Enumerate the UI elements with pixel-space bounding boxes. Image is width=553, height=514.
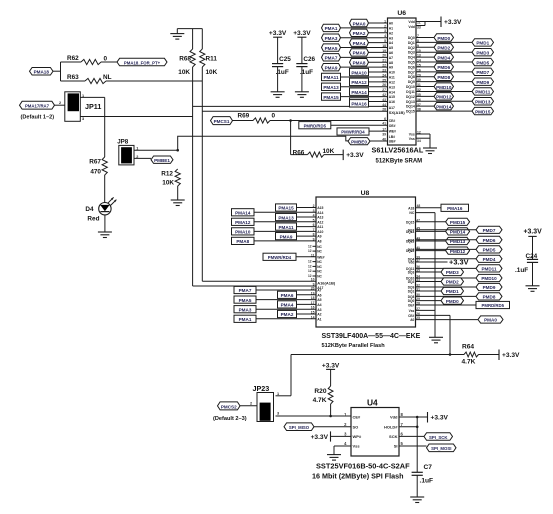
svg-text:A14: A14 (317, 211, 323, 215)
wire Vdd to C7 riser (416, 417, 418, 472)
jumper JP23 (250, 384, 279, 422)
wire PMA15 to U6 (341, 96, 388, 98)
svg-text:+3.3V: +3.3V (311, 434, 329, 441)
svg-text:A10: A10 (317, 230, 323, 234)
svg-text:DQ3: DQ3 (408, 271, 415, 275)
svg-text:PMD0: PMD0 (437, 36, 450, 41)
net tag PMD1 (441, 287, 464, 294)
svg-text:PMA0: PMA0 (353, 21, 366, 26)
svg-text:0: 0 (104, 56, 108, 63)
op IC U4 body (351, 398, 399, 456)
resistor R69 0 (233, 112, 276, 123)
svg-text:DQ15: DQ15 (406, 110, 415, 114)
svg-text:+3.3V: +3.3V (444, 19, 462, 26)
svg-text:37: 37 (416, 259, 420, 263)
wire net R63/NL to pullup column (106, 80, 202, 82)
svg-text:10: 10 (311, 278, 315, 282)
svg-text:DQ0: DQ0 (408, 36, 415, 40)
wire PMA7 to U6 (341, 56, 388, 58)
U6 Vdd pins to +3.3V (408, 20, 441, 29)
svg-text:PMA4: PMA4 (353, 41, 366, 46)
svg-text:PMA5: PMA5 (239, 298, 252, 303)
svg-text:PMA3: PMA3 (325, 36, 338, 41)
svg-text:PMRD/RD5: PMRD/RD5 (304, 123, 327, 128)
wire PMA2 to U6 (369, 32, 388, 34)
wire U8 Vss to ground (long) (416, 213, 436, 338)
svg-text:PMA9: PMA9 (280, 234, 293, 239)
svg-text:+3.3V: +3.3V (449, 258, 469, 267)
svg-text:PMD8: PMD8 (483, 295, 496, 300)
svg-text:PMD14: PMD14 (450, 230, 466, 235)
wire JP11 pin1 to R67 (80, 97, 104, 157)
U8 WE pin (311, 253, 325, 259)
svg-text:PMCS2: PMCS2 (221, 404, 237, 409)
net tag PMD12 (434, 93, 454, 100)
svg-text:A16: A16 (389, 100, 395, 104)
svg-text:C24: C24 (526, 253, 538, 260)
U6 control pin labels (382, 117, 396, 144)
U8 left pin labels A15-A8 (317, 206, 323, 243)
svg-text:PMA12: PMA12 (235, 220, 251, 225)
net tag PMA14 (U8) (232, 209, 255, 216)
wire PMD8 from U6 (416, 76, 434, 78)
svg-text:DQ13: DQ13 (406, 240, 415, 244)
ground below C25 (271, 92, 285, 98)
svg-text:42: 42 (416, 238, 420, 242)
svg-text:HOLD#: HOLD# (384, 425, 398, 430)
svg-text:PMD2: PMD2 (446, 280, 459, 285)
wire PMA4 to U6 (369, 42, 388, 44)
net tag PMD10 (476, 274, 502, 281)
power +3.3V at U6 (441, 17, 462, 28)
ground below C24 (526, 286, 540, 292)
wire ground bar to pullups (177, 28, 202, 30)
wire PMRD/RD5 to U8 (416, 304, 477, 306)
wire PMWR/RD4 to U8 (296, 256, 316, 258)
net tag PMD5 (476, 246, 502, 253)
wire PMD8 from U8 (416, 295, 477, 297)
svg-text:PMA17/RA7: PMA17/RA7 (25, 104, 50, 109)
wire PMD12 from U6 (416, 95, 434, 97)
wire JP23 pin1 riser (276, 355, 292, 396)
net tag PMA16 (U6) (350, 100, 369, 107)
wire U4 Vdd to +3.3V (399, 416, 428, 418)
svg-text:470: 470 (90, 169, 101, 176)
svg-text:PMD5: PMD5 (476, 60, 489, 65)
svg-text:JP23: JP23 (253, 384, 270, 393)
svg-text:Vdd: Vdd (390, 415, 398, 420)
resistor R63 (NL) (61, 74, 112, 84)
net tag PMA7 (U8) (234, 286, 256, 293)
net tag PMA6 (U8) (278, 291, 297, 298)
net tag PMD6 (476, 236, 502, 243)
svg-text:47: 47 (416, 218, 420, 222)
net tag PMA12 (U8) (232, 218, 255, 225)
wire PMA10 to U8 (254, 230, 316, 232)
svg-text:Red: Red (87, 216, 99, 223)
svg-text:PMD3: PMD3 (446, 270, 459, 275)
svg-text:PMD6: PMD6 (483, 238, 496, 243)
svg-text:PMD5: PMD5 (483, 248, 496, 253)
svg-text:PMA13: PMA13 (278, 215, 294, 220)
junction JP8/R12 (176, 149, 179, 152)
svg-text:A2: A2 (317, 313, 321, 317)
svg-text:SO: SO (353, 425, 359, 430)
svg-text:A7: A7 (317, 289, 321, 293)
svg-text:11: 11 (417, 21, 421, 25)
svg-text:10K: 10K (178, 69, 190, 76)
svg-text:SPI_SCK: SPI_SCK (429, 435, 448, 440)
svg-text:A3: A3 (389, 36, 393, 40)
net tag PMA8 (U8) (232, 237, 255, 244)
wire PMD10 from U8 (416, 277, 477, 279)
svg-text:34: 34 (417, 139, 421, 143)
wire PMD4 from U6 (416, 56, 434, 58)
net tag PMA11 (U8) (276, 223, 297, 230)
svg-text:PMD1: PMD1 (476, 41, 489, 46)
svg-text:.1uF: .1uF (276, 69, 289, 76)
wire PMA11 to U8 (297, 226, 317, 228)
net tag PMWR/RD4 (U8) (263, 253, 296, 260)
svg-text:PMD9: PMD9 (483, 285, 496, 290)
svg-text:A0: A0 (410, 318, 414, 322)
wire PMD3 from U6 (416, 51, 472, 53)
svg-text:PMD11: PMD11 (481, 267, 497, 272)
svg-text:PMA2: PMA2 (281, 312, 294, 317)
svg-text:JP8: JP8 (117, 139, 129, 146)
wire PMD1 from U8 (416, 290, 442, 292)
net tag PMA6 (350, 49, 369, 56)
wire PMD1 from U6 (416, 41, 472, 43)
junction HOLD riser (416, 426, 419, 429)
svg-text:U8: U8 (361, 190, 370, 197)
wire JP11 pin3 to A17 column (80, 116, 192, 118)
wire PMD15 from U6 (416, 110, 472, 112)
wire SPI_MISO to U4 SO (314, 426, 351, 428)
svg-text:PMD9: PMD9 (476, 80, 489, 85)
net tag PMA14 (350, 88, 369, 95)
svg-text:DQ15: DQ15 (406, 220, 415, 224)
svg-text:A16(A1B): A16(A1B) (317, 280, 336, 285)
wire PMA0 to U6 (369, 22, 388, 24)
svg-text:512KByte SRAM: 512KByte SRAM (376, 159, 423, 165)
svg-text:PMA8: PMA8 (353, 61, 366, 66)
svg-text:A8: A8 (389, 61, 393, 65)
net tag PMA13 (U8) (276, 213, 297, 220)
svg-text:1: 1 (277, 392, 279, 396)
wire PMD11 from U8 (416, 267, 477, 269)
wire PMA5 to U6 (341, 47, 388, 49)
svg-text:39: 39 (382, 133, 386, 137)
net tag PMD13 (472, 98, 494, 105)
wire PMD9 from U8 (416, 286, 477, 288)
wire JP8 pin2 to PMBE1 (134, 157, 151, 159)
U4 left pin labels (344, 412, 362, 449)
wire PMD6 from U8 (416, 239, 477, 241)
net tag PMD11 (472, 88, 494, 95)
resistor R20 4.7K (313, 369, 333, 416)
wire PMD5 from U8 (416, 248, 477, 250)
svg-text:PMA10: PMA10 (351, 70, 367, 75)
svg-text:DQ2: DQ2 (408, 46, 415, 50)
svg-text:PMA9: PMA9 (325, 65, 338, 70)
svg-text:A3: A3 (317, 308, 321, 312)
wire PMA12 to U6 (369, 81, 388, 83)
svg-text:2: 2 (250, 402, 252, 406)
net tag PMA15 (322, 93, 341, 100)
svg-text:PMA14: PMA14 (351, 90, 367, 95)
net tag PMA17/RA7 (20, 101, 55, 109)
svg-text:PMD4: PMD4 (483, 257, 496, 262)
svg-text:PMA6: PMA6 (281, 293, 294, 298)
svg-text:12: 12 (308, 249, 312, 253)
U8 left pin numbers upper (313, 204, 315, 241)
svg-text:PMD3: PMD3 (476, 51, 489, 56)
label U4 description (312, 472, 403, 481)
svg-text:PMD13: PMD13 (475, 100, 491, 105)
net tag PMD7 (476, 226, 502, 233)
svg-text:PMA1: PMA1 (239, 317, 252, 322)
label JP23 default (213, 416, 247, 422)
svg-text:DQ12: DQ12 (406, 249, 415, 253)
svg-text:A5: A5 (317, 298, 321, 302)
resistor R66 10K pull-up (291, 121, 344, 158)
svg-text:33: 33 (416, 278, 420, 282)
svg-text:Vss: Vss (409, 137, 415, 141)
svg-text:A13: A13 (389, 85, 395, 89)
svg-text:DQ14: DQ14 (406, 105, 415, 109)
ground below R12 (171, 200, 185, 206)
net tag PMA3 (322, 34, 341, 41)
power +3.3V at U8 Vdd (416, 258, 469, 267)
svg-text:A11: A11 (317, 225, 323, 229)
svg-text:A9: A9 (317, 235, 321, 239)
net tag PMD9 (476, 283, 502, 290)
wire JP8 net to PMBE0/U6 (178, 136, 348, 150)
svg-text:PMA3: PMA3 (239, 307, 252, 312)
svg-text:A1: A1 (389, 27, 393, 31)
wire PMD13 from U8 (416, 240, 446, 242)
svg-text:SST25VF016B-50-4C-S2AF: SST25VF016B-50-4C-S2AF (316, 461, 410, 470)
resistor R62 (61, 55, 108, 65)
svg-text:10K: 10K (162, 180, 174, 187)
U8 right pin numbers (416, 218, 420, 320)
svg-text:+3.3V: +3.3V (502, 352, 520, 359)
svg-text:A14: A14 (389, 90, 395, 94)
svg-text:4.7K: 4.7K (462, 359, 476, 366)
net tag PMD3 (472, 49, 494, 56)
svg-text:C7: C7 (424, 464, 433, 471)
wire PMRD/RD5 to U6 (331, 124, 388, 126)
wire PMA16 to U8 (408, 204, 441, 215)
wire U8 CE to R64 (416, 315, 451, 354)
resistor R11 10K (200, 29, 218, 81)
net tag PMD4 (476, 255, 502, 262)
wire PMA3 to U8 (256, 308, 316, 310)
svg-text:DQ6: DQ6 (408, 65, 415, 69)
svg-text:10K: 10K (206, 69, 218, 76)
svg-text:DQ3: DQ3 (408, 51, 415, 55)
svg-text:33: 33 (417, 26, 421, 30)
wire PMA1 to U8 (256, 318, 316, 320)
ground top-left (170, 29, 184, 39)
U8 A16 pin label (311, 278, 336, 286)
svg-text:12: 12 (308, 269, 312, 273)
net tag PMA2 (U8) (278, 310, 297, 317)
svg-text:S61LV25616AL: S61LV25616AL (372, 146, 424, 155)
wire PMD15 from U8 (416, 221, 446, 223)
svg-text:D4: D4 (85, 206, 94, 213)
wire PMA14 to U8 (254, 211, 316, 213)
svg-text:PMA7: PMA7 (239, 288, 252, 293)
svg-text:DQ12: DQ12 (406, 95, 415, 99)
wire PMBE0 to U6 (370, 140, 388, 142)
U6 right pin labels DQ0-DQ15 (406, 36, 415, 114)
net tag PMD7 (472, 68, 494, 75)
svg-text:R12: R12 (161, 171, 173, 178)
wire PMD7 from U8 (416, 229, 477, 231)
net tag SPI_SCK (424, 433, 453, 441)
net tag PMD15 (472, 107, 494, 114)
svg-text:48: 48 (417, 204, 421, 208)
capacitor C24 .1uF (515, 236, 538, 285)
svg-text:R20: R20 (314, 388, 326, 395)
wire U8 Vss2 to ground (416, 309, 436, 311)
label U8 part number (322, 333, 421, 340)
wire R67 to D4 (104, 175, 106, 203)
wire PMA6 to U8 (297, 294, 317, 296)
svg-text:DQ10: DQ10 (406, 85, 415, 89)
svg-text:29: 29 (416, 297, 420, 301)
svg-text:0: 0 (272, 113, 276, 120)
net tag PMD10 (434, 83, 454, 90)
svg-text:OE#: OE# (408, 304, 415, 308)
svg-text:44: 44 (382, 103, 386, 107)
net tag PMD0 (441, 297, 464, 304)
svg-text:.1uF: .1uF (515, 267, 528, 274)
net tag PMA10 (U8) (232, 228, 255, 235)
net tag PMA0 (350, 19, 369, 26)
svg-text:A4: A4 (317, 303, 321, 307)
wire PMA9 to U8 (297, 235, 317, 237)
svg-text:SX(A1B): SX(A1B) (389, 110, 406, 115)
svg-text:R11: R11 (206, 56, 218, 63)
net tag PMD2 (441, 278, 464, 285)
net tag PMD12 (446, 247, 470, 254)
power +3.3V above C24 (524, 228, 543, 236)
net tag PMBE0 (348, 138, 370, 145)
net tag SPI_MISO (284, 423, 314, 431)
svg-text:A0: A0 (389, 22, 393, 26)
wire U4 Vss to ground (334, 446, 351, 455)
svg-text:+3.3V: +3.3V (322, 362, 340, 369)
svg-text:PMD1: PMD1 (446, 289, 459, 294)
svg-text:PMA11: PMA11 (278, 225, 294, 230)
svg-text:C25: C25 (279, 56, 291, 63)
label U6 part number (372, 146, 424, 155)
wire PMD7 from U6 (416, 71, 472, 73)
svg-text:PMA15: PMA15 (323, 95, 339, 100)
svg-text:DQ7: DQ7 (408, 70, 415, 74)
wire PMA12 to U8 (254, 221, 316, 223)
wire PMD4 from U8 (416, 258, 477, 260)
wire PMA2 to U8 (297, 313, 317, 315)
svg-text:JP11: JP11 (85, 102, 101, 111)
svg-text:+3.3V: +3.3V (269, 30, 287, 37)
net tag PMD9 (472, 78, 494, 85)
svg-text:512KByte Parallel Flash: 512KByte Parallel Flash (322, 343, 386, 349)
svg-text:Vdd: Vdd (408, 20, 414, 24)
U6 Vss pins to ground (409, 130, 430, 148)
wire PMA9 to U6 (341, 66, 388, 68)
wire PMD14 from U6 (416, 105, 434, 107)
svg-text:Vss: Vss (353, 444, 361, 449)
svg-text:PMA15: PMA15 (278, 206, 294, 211)
wire U4 SCK (399, 435, 424, 437)
svg-text:Vdd: Vdd (408, 261, 414, 265)
svg-text:PMD2: PMD2 (437, 46, 450, 51)
wire PMA13 to U6 (341, 86, 388, 88)
wire JP8 pin1 (134, 149, 178, 151)
svg-text:PMD12: PMD12 (436, 95, 452, 100)
wire PMA11 to U6 (341, 76, 388, 78)
svg-text:LB#: LB# (389, 135, 396, 139)
svg-text:28: 28 (382, 108, 386, 112)
net tag PMD5 (472, 58, 494, 65)
svg-text:A15: A15 (317, 206, 323, 210)
svg-text:PMBE0: PMBE0 (351, 139, 367, 144)
svg-text:PMD7: PMD7 (476, 70, 489, 75)
wire PMA10 to U6 (369, 71, 388, 73)
wire PMD5 from U6 (416, 61, 472, 63)
svg-text:PMA10: PMA10 (235, 230, 251, 235)
svg-text:DQ2: DQ2 (408, 280, 415, 284)
svg-text:SPI_MOSI: SPI_MOSI (431, 446, 451, 451)
net tag PMA1 (U8) (234, 315, 256, 322)
wire vertical net A16 (x=202.3) (202, 81, 316, 281)
svg-text:R69: R69 (238, 112, 250, 119)
svg-text:12: 12 (417, 130, 421, 134)
svg-text:DQ1: DQ1 (408, 41, 415, 45)
net tag PMA9 (U8) (276, 233, 297, 240)
wire PMD11 from U6 (416, 90, 472, 92)
resistor R12 10K (161, 169, 180, 200)
net tag PMBE1 (151, 156, 173, 163)
svg-text:UB#: UB# (389, 140, 396, 144)
power +3.3V at R66 (343, 150, 364, 161)
svg-text:A8: A8 (317, 239, 321, 243)
svg-text:U6: U6 (397, 10, 406, 17)
svg-text:PMD4: PMD4 (437, 55, 450, 60)
svg-text:PMD14: PMD14 (436, 104, 452, 109)
U6 left pin labels A0-A16 (389, 22, 395, 104)
net tag PMD2 (434, 44, 454, 51)
svg-text:SST39LF400A—55—4C—EKE: SST39LF400A—55—4C—EKE (322, 333, 421, 340)
svg-text:16 Mbit (2MByte) SPI Flash: 16 Mbit (2MByte) SPI Flash (312, 472, 403, 481)
svg-text:PMA16: PMA16 (351, 102, 367, 107)
wire PMD2 from U6 (416, 46, 434, 48)
net tag PMA2 (350, 29, 369, 36)
svg-text:2: 2 (59, 101, 61, 105)
power +3.3V at U4 WP (311, 431, 331, 441)
wire PMA4 to U8 (297, 303, 317, 305)
ground below D4 (98, 232, 112, 238)
net tag PMWR/RD4 (U6) (337, 128, 369, 135)
svg-text:PMRD/RD5: PMRD/RD5 (482, 303, 505, 308)
svg-text:SPI_MISO: SPI_MISO (289, 425, 310, 430)
svg-text:31: 31 (416, 288, 420, 292)
U8 left pin labels A7-A1 (317, 289, 321, 322)
